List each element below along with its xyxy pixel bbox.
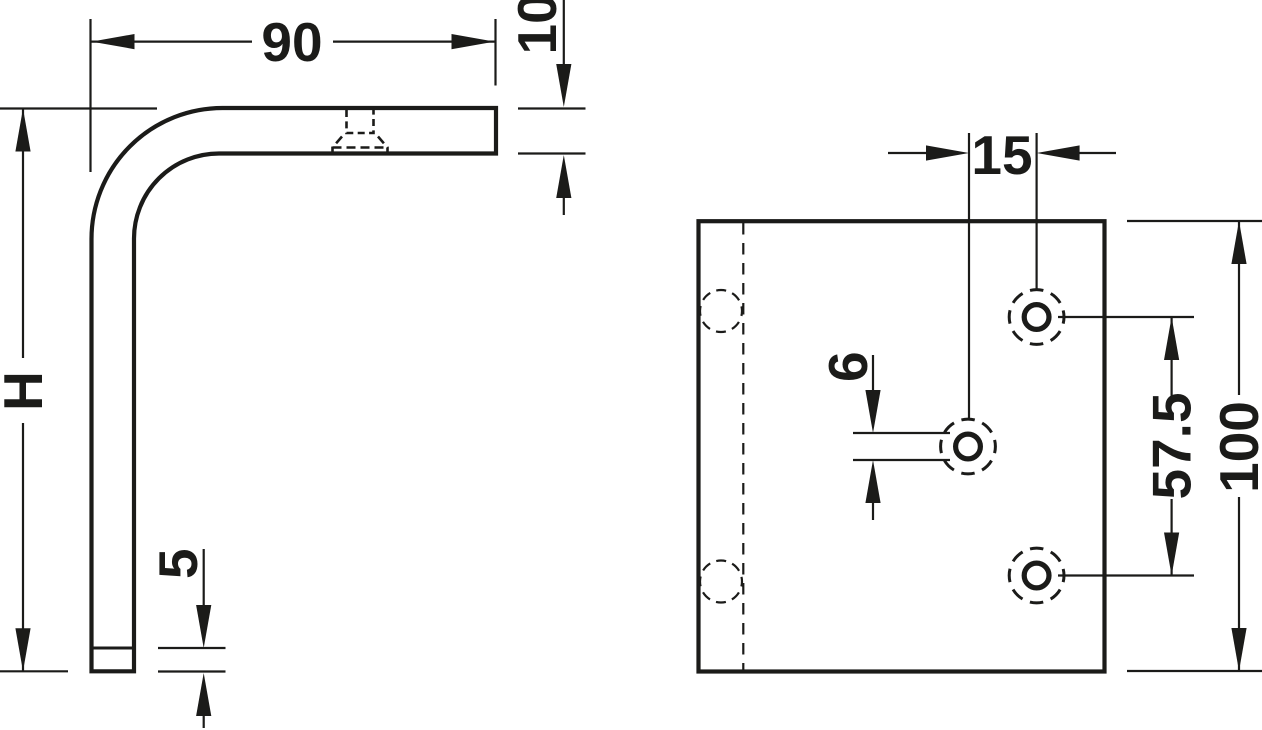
svg-text:10: 10 [506, 0, 568, 55]
H-dim line upper segment [22, 109, 24, 359]
5-dim line lower segment [203, 714, 205, 728]
15-dim left extension line [968, 133, 970, 419]
edge hole top (dashed circle) [700, 290, 742, 332]
svg-text:15: 15 [971, 124, 1032, 186]
6-dim lower tangent line [853, 459, 950, 461]
100-dim line upper segment [1238, 221, 1240, 395]
bottom-right hole countersink (dashed) [1009, 548, 1064, 603]
top-right hole [1024, 305, 1049, 330]
90-dim left arrow [92, 34, 135, 49]
edge hole bottom (dashed circle) [700, 561, 742, 603]
svg-text:H: H [0, 371, 54, 411]
H-dim line lower segment [22, 423, 24, 671]
foot line [94, 647, 133, 650]
57.5-dim line lower segment [1170, 499, 1172, 576]
H-dim top extension line [0, 107, 157, 109]
5-dim bottom arrow [196, 673, 211, 716]
15-dim right extension line [1035, 133, 1037, 290]
10-dim line upper segment [563, 0, 565, 66]
top-right hole countersink (dashed) [1009, 290, 1064, 345]
screw shank (hidden, dashed) [347, 110, 374, 133]
top hole leader line [1058, 316, 1194, 318]
57.5-dim top arrow [1164, 317, 1179, 360]
100-dim line lower segment [1238, 497, 1240, 671]
middle hole [956, 434, 981, 459]
6-dim bottom arrow [865, 460, 880, 503]
svg-text:90: 90 [261, 11, 322, 73]
100-dim bottom arrow [1231, 628, 1246, 671]
100-dim top extension line [1127, 220, 1262, 222]
10-dim bottom arrow [556, 155, 571, 198]
100-dim top arrow [1231, 221, 1246, 264]
10-dim top arrow [556, 64, 571, 107]
15-dim right shaft [1078, 152, 1116, 154]
90-dim left extension line [89, 19, 91, 172]
leg outline (side view) [92, 108, 497, 671]
bottom hole leader line [1058, 574, 1194, 576]
svg-text:5: 5 [147, 548, 209, 579]
svg-text:100: 100 [1208, 401, 1262, 493]
57.5-dim line upper segment [1170, 317, 1172, 396]
6-dim top arrow [865, 390, 880, 433]
5-dim lower extension line [158, 670, 226, 672]
15-dim left arrow [926, 145, 969, 160]
100-dim bottom extension line [1127, 670, 1262, 672]
5-dim upper extension line [158, 647, 226, 649]
svg-text:57.5: 57.5 [1141, 392, 1203, 499]
57.5-dim bottom arrow [1164, 533, 1179, 576]
bottom-right hole [1024, 563, 1049, 588]
H-dim top arrow [15, 109, 30, 152]
H-dim bottom extension line [0, 670, 68, 672]
mounting plate outline [699, 221, 1105, 671]
svg-text:6: 6 [817, 351, 879, 382]
90-dim right arrow [452, 34, 495, 49]
6-dim upper tangent line [853, 432, 950, 434]
15-dim left shaft [888, 152, 928, 154]
plate bend line (dashed) [742, 223, 744, 670]
5-dim top arrow [196, 605, 211, 648]
5-dim line upper segment [203, 549, 205, 607]
90-dim right extension line [494, 19, 496, 86]
90-dim line right segment [333, 40, 495, 42]
15-dim right arrow [1037, 145, 1080, 160]
middle hole countersink (dashed) [941, 419, 996, 474]
H-dim bottom arrow [15, 628, 30, 671]
10-dim upper extension line [518, 107, 586, 109]
6-dim line lower segment [872, 501, 874, 520]
6-dim line upper segment [872, 355, 874, 392]
10-dim lower extension line [518, 152, 586, 154]
screw head (hidden, dashed) [333, 137, 388, 153]
10-dim line lower segment [563, 197, 565, 215]
90-dim line left segment [91, 40, 252, 42]
